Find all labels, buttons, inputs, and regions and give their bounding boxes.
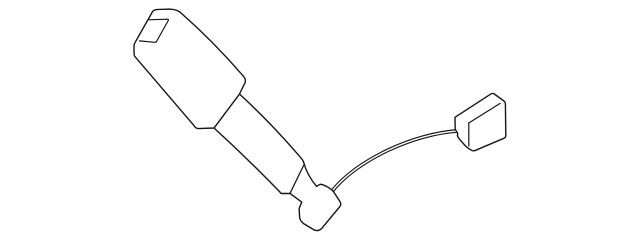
buckle body xyxy=(134,9,245,129)
wire cable inner gap xyxy=(331,131,458,192)
connector top-face inner edge xyxy=(469,103,500,123)
release button xyxy=(140,19,169,42)
connector front-left inner edge xyxy=(468,123,470,146)
wire cable (double line) xyxy=(331,131,458,192)
stalk and anchor base (behind buckle body) xyxy=(214,94,341,231)
stalk end face line xyxy=(290,165,304,193)
connector housing xyxy=(455,93,506,150)
